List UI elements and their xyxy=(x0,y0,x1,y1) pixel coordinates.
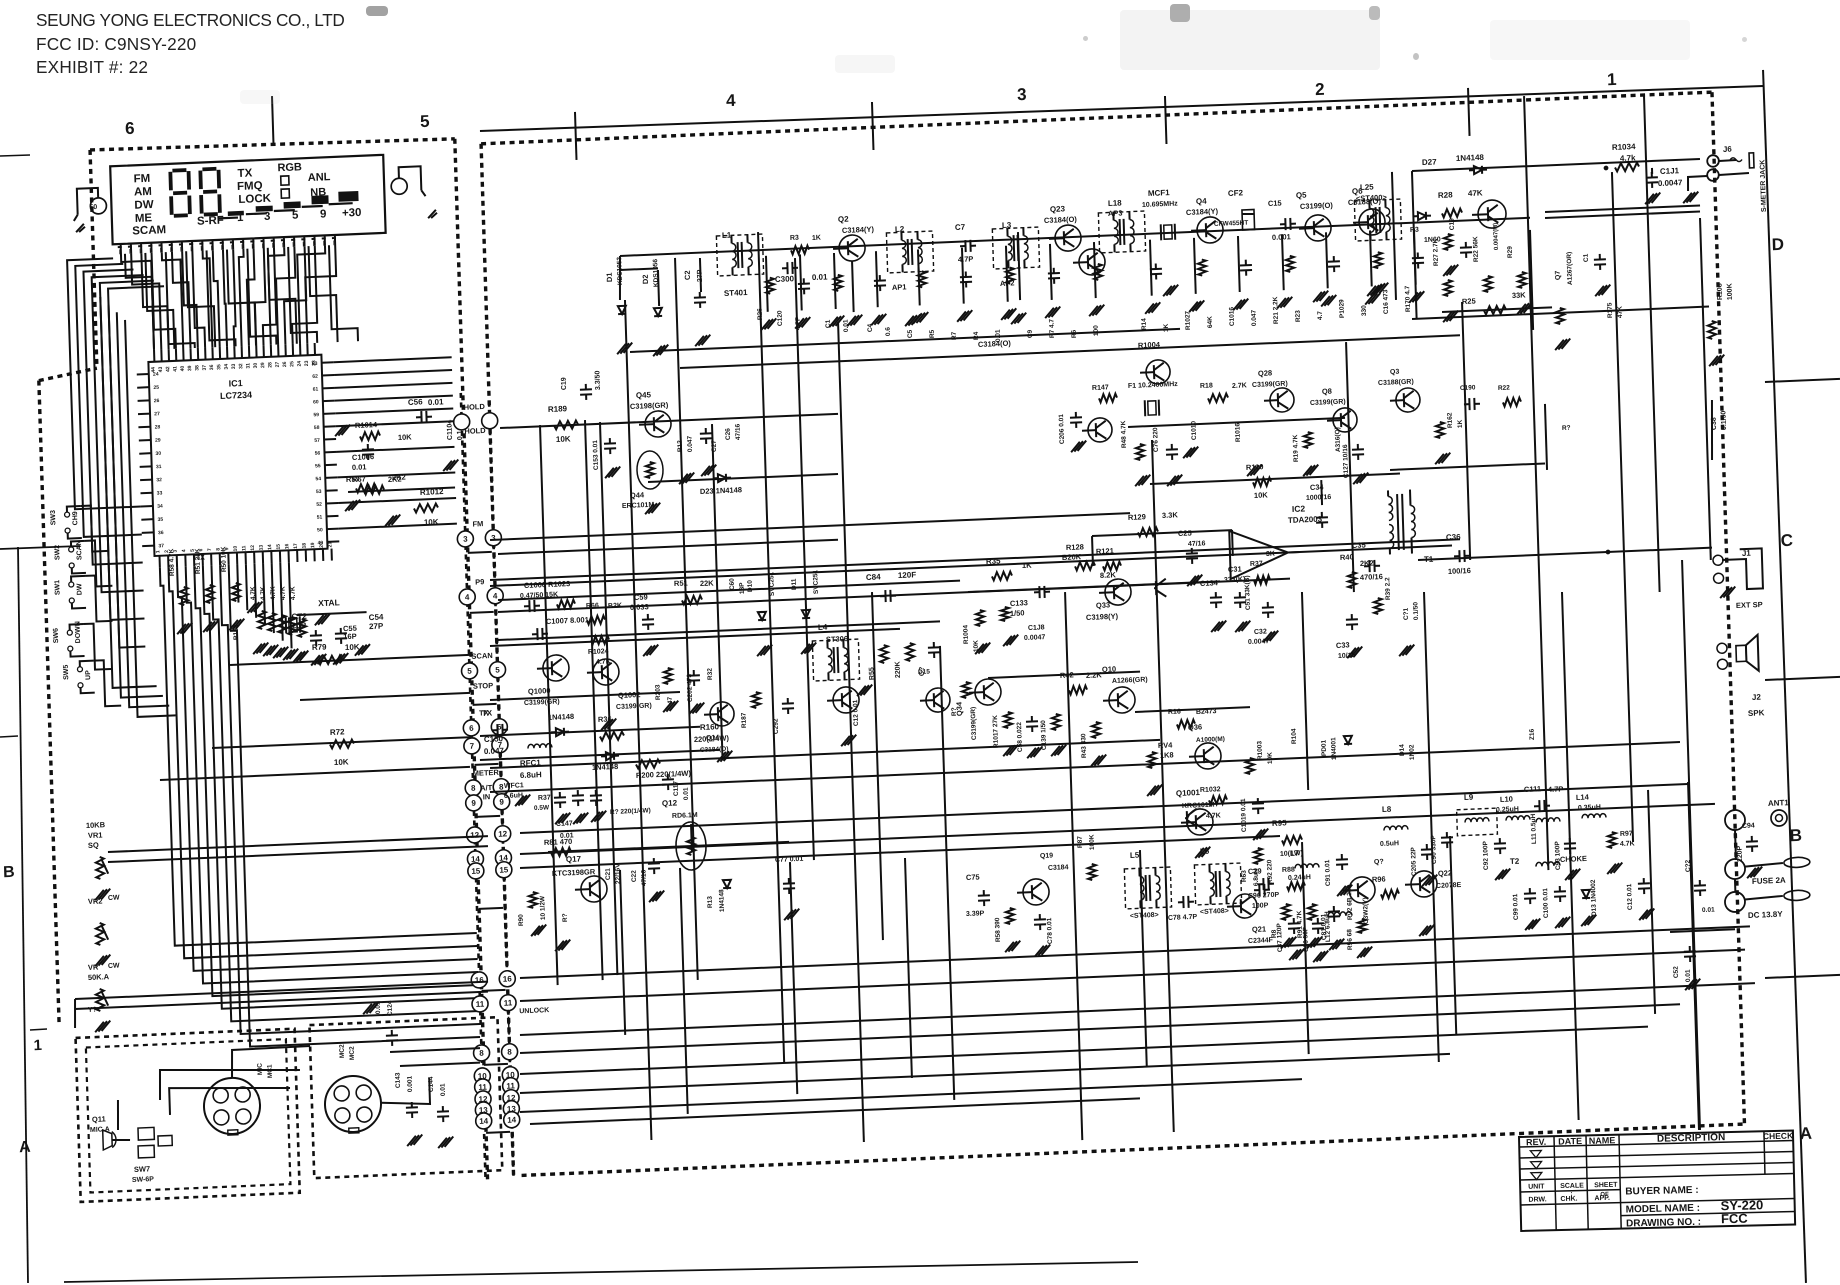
svg-text:58: 58 xyxy=(314,425,320,431)
svg-text:A: A xyxy=(19,1139,32,1156)
svg-text:R95: R95 xyxy=(1272,818,1287,828)
svg-text:120P: 120P xyxy=(1737,845,1745,862)
svg-text:D27: D27 xyxy=(1422,157,1437,167)
svg-text:VR1: VR1 xyxy=(88,830,103,840)
svg-text:18: 18 xyxy=(301,543,307,549)
svg-text:CH9: CH9 xyxy=(72,511,79,525)
svg-text:R63: R63 xyxy=(1241,870,1248,883)
svg-text:ME: ME xyxy=(135,212,153,225)
svg-text:C1010: C1010 xyxy=(1190,420,1198,440)
svg-text:R97: R97 xyxy=(1620,830,1633,838)
svg-text:27P: 27P xyxy=(369,621,384,631)
svg-text:Q10: Q10 xyxy=(1102,664,1116,674)
svg-text:C1J1: C1J1 xyxy=(1660,166,1680,176)
svg-text:J6: J6 xyxy=(1723,145,1733,154)
svg-text:0.01: 0.01 xyxy=(428,397,444,407)
svg-text:KRC101M: KRC101M xyxy=(1182,802,1215,810)
svg-text:40: 40 xyxy=(180,365,186,371)
svg-text:C33: C33 xyxy=(1336,640,1350,650)
svg-text:4.7: 4.7 xyxy=(1317,311,1324,321)
svg-text:4.7P: 4.7P xyxy=(958,254,974,264)
svg-text:24: 24 xyxy=(153,372,159,378)
svg-text:47/16: 47/16 xyxy=(641,869,649,886)
svg-text:UNIT: UNIT xyxy=(1528,1183,1545,1190)
svg-text:NAME: NAME xyxy=(1589,1135,1616,1146)
svg-text:0.24uH: 0.24uH xyxy=(1288,874,1311,882)
svg-text:R1014: R1014 xyxy=(355,420,378,430)
svg-text:35: 35 xyxy=(158,517,164,523)
svg-text:RD6.1M: RD6.1M xyxy=(672,812,698,820)
svg-text:C3188(GR): C3188(GR) xyxy=(1378,379,1414,387)
svg-text:C19: C19 xyxy=(561,377,568,390)
svg-text:A: A xyxy=(1799,1124,1812,1144)
svg-text:R81 470: R81 470 xyxy=(544,837,573,847)
svg-text:R37: R37 xyxy=(538,794,551,802)
svg-text:4.7P: 4.7P xyxy=(1548,784,1564,794)
svg-text:UNLOCK: UNLOCK xyxy=(519,1007,549,1015)
svg-text:C?1: C?1 xyxy=(1403,607,1410,620)
svg-text:30: 30 xyxy=(155,451,161,457)
svg-text:C3198(Y): C3198(Y) xyxy=(1086,612,1119,622)
svg-text:3.3K: 3.3K xyxy=(1162,510,1179,520)
svg-text:D2: D2 xyxy=(641,274,650,284)
svg-text:C120: C120 xyxy=(777,310,784,326)
svg-text:C76 220: C76 220 xyxy=(1152,427,1160,452)
svg-text:31: 31 xyxy=(156,464,162,470)
svg-text:220K: 220K xyxy=(895,661,903,678)
svg-text:0.01: 0.01 xyxy=(843,319,850,332)
svg-text:C32: C32 xyxy=(1254,628,1267,636)
svg-text:SQ: SQ xyxy=(88,841,99,850)
svg-text:15: 15 xyxy=(276,544,282,550)
svg-text:10: 10 xyxy=(233,545,239,551)
svg-text:17: 17 xyxy=(293,543,299,549)
svg-text:10K: 10K xyxy=(345,642,360,652)
svg-text:CF2: CF2 xyxy=(1228,188,1244,198)
svg-text:10.695MHz: 10.695MHz xyxy=(1142,200,1178,209)
svg-text:EXT SP: EXT SP xyxy=(1736,600,1763,610)
svg-text:R16: R16 xyxy=(1168,708,1181,716)
svg-text:C58 0.022: C58 0.022 xyxy=(1016,722,1024,753)
svg-text:R90: R90 xyxy=(518,914,525,927)
svg-text:ANT1: ANT1 xyxy=(1768,798,1790,808)
svg-text:FCC ID: C9NSY-220: FCC ID: C9NSY-220 xyxy=(36,34,196,54)
svg-text:C2078E: C2078E xyxy=(1436,882,1462,890)
svg-text:SCAN: SCAN xyxy=(76,540,84,560)
svg-text:R58 4.7K: R58 4.7K xyxy=(168,548,176,576)
svg-text:C19: C19 xyxy=(1449,218,1456,231)
svg-text:R28: R28 xyxy=(1438,190,1453,200)
svg-text:100K: 100K xyxy=(1727,283,1735,300)
svg-text:CFW455HT: CFW455HT xyxy=(1214,220,1249,228)
svg-text:C1007 8.001: C1007 8.001 xyxy=(546,615,589,626)
svg-text:A1267(OR): A1267(OR) xyxy=(1566,252,1574,286)
svg-text:5: 5 xyxy=(467,667,472,676)
svg-text:A1266(GR): A1266(GR) xyxy=(1112,676,1148,684)
svg-text:VR2: VR2 xyxy=(88,896,103,906)
svg-text:R4: R4 xyxy=(973,331,980,340)
svg-text:53: 53 xyxy=(316,489,322,495)
svg-text:FMQ: FMQ xyxy=(237,180,263,193)
svg-text:AP1: AP1 xyxy=(892,282,907,292)
svg-text:B2K: B2K xyxy=(608,602,622,610)
svg-text:R104: R104 xyxy=(1291,728,1298,744)
svg-text:R1017 27K: R1017 27K xyxy=(992,715,1000,748)
svg-text:6.6uH: 6.6uH xyxy=(504,792,523,800)
svg-text:12: 12 xyxy=(498,829,508,838)
svg-text:100P: 100P xyxy=(1252,902,1269,910)
svg-text:4.7K: 4.7K xyxy=(1620,840,1635,848)
svg-text:10K: 10K xyxy=(556,434,571,444)
svg-text:6: 6 xyxy=(125,119,135,138)
svg-text:D1: D1 xyxy=(605,272,614,282)
svg-text:C111: C111 xyxy=(1524,784,1541,794)
svg-text:R36: R36 xyxy=(598,714,612,724)
svg-text:31: 31 xyxy=(245,363,251,369)
svg-text:1K: 1K xyxy=(1022,561,1032,570)
svg-text:29: 29 xyxy=(260,362,266,368)
svg-text:Q11: Q11 xyxy=(92,1114,106,1124)
svg-text:METER: METER xyxy=(473,768,500,778)
svg-text:Q12: Q12 xyxy=(662,798,678,808)
svg-text:0.0047: 0.0047 xyxy=(1024,634,1046,642)
svg-text:43: 43 xyxy=(158,366,164,372)
svg-text:R?: R? xyxy=(1562,425,1571,432)
svg-text:4.7K: 4.7K xyxy=(260,586,267,600)
svg-text:C133: C133 xyxy=(1010,598,1028,608)
svg-text:36: 36 xyxy=(209,364,215,370)
svg-text:SW1: SW1 xyxy=(54,580,61,596)
svg-text:33: 33 xyxy=(231,363,237,369)
svg-text:0.0047: 0.0047 xyxy=(1658,178,1683,188)
svg-text:25: 25 xyxy=(153,385,159,391)
svg-text:1K: 1K xyxy=(812,235,821,242)
svg-text:R170 4.7: R170 4.7 xyxy=(1404,285,1412,312)
svg-text:C3184(Y): C3184(Y) xyxy=(842,225,875,235)
svg-text:R160: R160 xyxy=(700,722,720,732)
svg-text:C3198(GR): C3198(GR) xyxy=(630,400,669,411)
svg-text:C91 0.01: C91 0.01 xyxy=(1324,859,1332,886)
svg-text:C90 330P: C90 330P xyxy=(1430,834,1438,864)
svg-text:5: 5 xyxy=(420,112,430,131)
svg-text:0.5uH: 0.5uH xyxy=(1380,840,1399,848)
svg-text:52: 52 xyxy=(316,502,322,508)
svg-text:55: 55 xyxy=(315,463,321,469)
svg-text:2K2: 2K2 xyxy=(392,472,406,482)
svg-text:Q45: Q45 xyxy=(636,390,652,400)
svg-text:R48 4.7K: R48 4.7K xyxy=(1120,420,1128,448)
svg-text:10 1/2W: 10 1/2W xyxy=(539,895,547,920)
svg-text:MC1: MC1 xyxy=(267,1064,274,1078)
svg-text:J2: J2 xyxy=(1752,693,1762,702)
svg-text:Q22: Q22 xyxy=(1438,868,1452,878)
svg-text:SCAN: SCAN xyxy=(471,651,493,661)
svg-text:12: 12 xyxy=(470,831,480,840)
svg-text:C3199(GR): C3199(GR) xyxy=(616,703,652,711)
svg-text:FM: FM xyxy=(133,173,150,186)
svg-text:C3199(GR): C3199(GR) xyxy=(1252,381,1288,389)
svg-text:L5: L5 xyxy=(1130,851,1140,860)
svg-text:R189: R189 xyxy=(548,404,568,414)
svg-text:C99 0.01: C99 0.01 xyxy=(1512,893,1520,920)
svg-text:F1 10.2400MHz: F1 10.2400MHz xyxy=(1128,381,1178,390)
svg-text:FCC: FCC xyxy=(1721,1211,1749,1227)
svg-text:C92 100P: C92 100P xyxy=(1482,840,1490,870)
svg-text:R200 220(1/4W): R200 220(1/4W) xyxy=(636,769,692,780)
svg-text:HOLD: HOLD xyxy=(464,426,486,436)
svg-text:FUSE 2A: FUSE 2A xyxy=(1752,876,1786,886)
svg-text:4.7K: 4.7K xyxy=(280,586,287,600)
svg-text:3.39P: 3.39P xyxy=(966,910,985,918)
svg-text:14: 14 xyxy=(507,1115,517,1124)
svg-text:CW: CW xyxy=(108,962,120,970)
svg-text:8.2K: 8.2K xyxy=(1100,570,1117,580)
svg-text:C25: C25 xyxy=(1178,528,1192,538)
svg-text:L18: L18 xyxy=(1108,198,1123,208)
svg-text:R1004: R1004 xyxy=(1138,340,1161,350)
svg-text:63: 63 xyxy=(312,361,318,367)
svg-text:MC2: MC2 xyxy=(339,1044,346,1058)
svg-text:C205 22P: C205 22P xyxy=(1410,846,1418,876)
svg-text:IC1: IC1 xyxy=(229,378,243,389)
svg-text:Q23: Q23 xyxy=(1050,204,1066,214)
svg-text:RV4: RV4 xyxy=(1158,740,1174,750)
svg-text:L12 6.8uH: L12 6.8uH xyxy=(1324,911,1332,942)
svg-text:R50 10K: R50 10K xyxy=(220,546,228,572)
svg-text:UP: UP xyxy=(85,670,92,680)
svg-text:1: 1 xyxy=(1607,70,1617,89)
svg-text:CHECK: CHECK xyxy=(1763,1131,1794,1142)
svg-text:1: 1 xyxy=(155,550,161,553)
svg-text:S-RF: S-RF xyxy=(197,215,224,228)
svg-text:R67: R67 xyxy=(352,474,366,484)
svg-text:B: B xyxy=(1789,826,1802,846)
svg-text:Q36: Q36 xyxy=(1188,722,1202,732)
svg-text:R1032: R1032 xyxy=(1200,786,1221,794)
svg-text:28: 28 xyxy=(155,424,161,430)
svg-text:4.7K: 4.7K xyxy=(270,586,277,600)
svg-text:32: 32 xyxy=(156,477,162,483)
svg-text:59: 59 xyxy=(313,412,319,418)
svg-text:51: 51 xyxy=(317,514,323,520)
svg-text:7: 7 xyxy=(207,548,213,551)
svg-text:36: 36 xyxy=(158,530,164,536)
svg-text:16: 16 xyxy=(503,974,513,983)
svg-text:1N4148: 1N4148 xyxy=(592,762,619,772)
svg-text:22/16V: 22/16V xyxy=(614,863,622,885)
svg-text:26: 26 xyxy=(282,361,288,367)
svg-text:R29: R29 xyxy=(1507,246,1514,259)
svg-text:0.033: 0.033 xyxy=(630,602,649,612)
svg-text:Z16: Z16 xyxy=(1529,728,1536,740)
svg-text:AM: AM xyxy=(134,186,152,199)
svg-text:18P: 18P xyxy=(739,582,746,595)
svg-text:Q3: Q3 xyxy=(1390,369,1400,376)
svg-text:R88: R88 xyxy=(1282,866,1295,874)
svg-text:C1: C1 xyxy=(1583,253,1590,262)
svg-text:R162: R162 xyxy=(1446,412,1453,428)
svg-text:1/50: 1/50 xyxy=(1010,608,1025,618)
svg-text:D23 1N4148: D23 1N4148 xyxy=(700,485,742,496)
svg-text:R72: R72 xyxy=(330,727,345,737)
svg-text:LC7234: LC7234 xyxy=(220,390,252,401)
svg-text:6: 6 xyxy=(469,724,474,733)
svg-text:CHOKE: CHOKE xyxy=(1560,854,1587,864)
svg-text:C56: C56 xyxy=(408,397,423,407)
svg-text:R23: R23 xyxy=(1295,310,1302,323)
svg-text:B2473: B2473 xyxy=(1196,708,1217,716)
svg-text:1: 1 xyxy=(33,1037,42,1054)
svg-text:Q?: Q? xyxy=(1374,859,1384,866)
svg-text:L3: L3 xyxy=(1002,221,1012,230)
svg-text:L14: L14 xyxy=(1576,792,1590,802)
svg-text:MC2: MC2 xyxy=(349,1046,356,1060)
svg-text:SW5: SW5 xyxy=(63,664,70,680)
svg-text:1N4148: 1N4148 xyxy=(1456,153,1485,163)
svg-text:R3: R3 xyxy=(790,235,799,242)
svg-text:35: 35 xyxy=(216,364,222,370)
svg-text:100/16: 100/16 xyxy=(1448,566,1471,576)
svg-text:C78 0.01: C78 0.01 xyxy=(1046,917,1054,944)
svg-text:R21 2.2K: R21 2.2K xyxy=(1272,296,1280,324)
svg-text:R128: R128 xyxy=(1066,542,1084,552)
svg-text:L9: L9 xyxy=(1464,793,1474,802)
svg-text:470/16: 470/16 xyxy=(1360,572,1383,582)
svg-text:C75: C75 xyxy=(966,872,980,882)
svg-text:26: 26 xyxy=(154,398,160,404)
svg-text:C2: C2 xyxy=(683,270,692,280)
svg-text:61: 61 xyxy=(313,386,319,392)
svg-text:IC2: IC2 xyxy=(1292,503,1306,514)
svg-text:MIC.A: MIC.A xyxy=(90,1126,110,1134)
svg-text:Q7: Q7 xyxy=(1555,270,1562,280)
svg-text:APP.: APP. xyxy=(1594,1195,1610,1202)
svg-text:23: 23 xyxy=(304,360,310,366)
svg-text:37: 37 xyxy=(202,365,208,371)
svg-text:C3184(Y): C3184(Y) xyxy=(1186,207,1219,217)
svg-text:R147: R147 xyxy=(1092,384,1109,392)
svg-text:R22 56K: R22 56K xyxy=(1472,236,1480,262)
svg-text:CHK.: CHK. xyxy=(1560,1196,1577,1203)
svg-text:4: 4 xyxy=(726,91,737,110)
svg-text:SPK: SPK xyxy=(1748,708,1765,718)
svg-text:SHEET: SHEET xyxy=(1594,1182,1618,1190)
svg-text:<ST408>: <ST408> xyxy=(1130,912,1159,920)
svg-text:R40: R40 xyxy=(1340,552,1354,562)
svg-text:10K: 10K xyxy=(334,757,349,767)
svg-text:330: 330 xyxy=(1361,305,1368,317)
svg-text:+30: +30 xyxy=(342,207,362,220)
svg-text:C22: C22 xyxy=(631,870,638,883)
svg-text:R43 330: R43 330 xyxy=(1080,733,1088,758)
svg-text:C26: C26 xyxy=(725,428,732,441)
svg-text:KTC3198GR: KTC3198GR xyxy=(552,867,596,878)
svg-text:C3199(GR): C3199(GR) xyxy=(524,698,560,706)
svg-text:R96: R96 xyxy=(1372,874,1386,884)
svg-text:R108: R108 xyxy=(1716,283,1724,300)
svg-text:4.7K: 4.7K xyxy=(250,586,257,600)
svg-text:P1029: P1029 xyxy=(1338,299,1346,318)
svg-text:RFC1: RFC1 xyxy=(520,758,542,768)
svg-text:C: C xyxy=(1780,531,1793,551)
svg-text:C3184: C3184 xyxy=(1048,864,1069,872)
svg-text:R27 2.7K: R27 2.7K xyxy=(1432,238,1440,266)
svg-text:T2: T2 xyxy=(1510,857,1520,866)
svg-text:R1003: R1003 xyxy=(1256,740,1264,760)
svg-text:10K: 10K xyxy=(1254,490,1269,500)
svg-text:BUYER NAME :: BUYER NAME : xyxy=(1625,1185,1699,1198)
svg-text:39: 39 xyxy=(187,365,193,371)
svg-text:57: 57 xyxy=(314,438,320,444)
svg-text:1N02: 1N02 xyxy=(1408,744,1415,760)
svg-text:C117: C117 xyxy=(673,780,680,796)
svg-text:16P: 16P xyxy=(343,632,357,642)
svg-text:C100 0.01: C100 0.01 xyxy=(1542,888,1550,919)
svg-text:47/16: 47/16 xyxy=(1188,540,1206,548)
svg-text:C77 0.01: C77 0.01 xyxy=(775,856,804,864)
svg-text:220(1/4W): 220(1/4W) xyxy=(694,734,730,744)
svg-text:Q21: Q21 xyxy=(1252,924,1266,934)
svg-text:11: 11 xyxy=(504,998,513,1007)
svg-text:4.7k: 4.7k xyxy=(1620,153,1636,163)
svg-text:10K: 10K xyxy=(398,432,413,442)
svg-text:C3184(O): C3184(O) xyxy=(978,339,1012,349)
svg-text:1: 1 xyxy=(237,212,244,224)
svg-text:C143: C143 xyxy=(394,1072,401,1088)
svg-text:SW6: SW6 xyxy=(53,628,60,644)
svg-text:16: 16 xyxy=(475,976,485,985)
svg-text:D13 1N4002: D13 1N4002 xyxy=(1590,879,1598,916)
svg-text:R110: R110 xyxy=(1246,462,1264,472)
svg-text:A316(O): A316(O) xyxy=(1334,427,1342,452)
svg-text:1N4148: 1N4148 xyxy=(718,889,726,912)
svg-text:8: 8 xyxy=(471,784,476,793)
svg-text:11: 11 xyxy=(241,545,247,551)
svg-text:10K: 10K xyxy=(424,517,439,527)
svg-text:7: 7 xyxy=(470,742,475,751)
svg-text:Q17: Q17 xyxy=(566,854,582,864)
svg-text:R187: R187 xyxy=(741,712,748,728)
svg-text:P9: P9 xyxy=(475,577,484,586)
svg-text:3.3/50: 3.3/50 xyxy=(594,370,602,390)
svg-text:R?: R? xyxy=(951,707,958,716)
svg-text:0.5W: 0.5W xyxy=(534,804,550,812)
svg-text:60: 60 xyxy=(313,399,319,405)
svg-text:C1J8: C1J8 xyxy=(1028,624,1045,632)
svg-text:ST306: ST306 xyxy=(826,634,848,644)
svg-text:Q5: Q5 xyxy=(1296,191,1307,200)
svg-text:R1034: R1034 xyxy=(1612,142,1636,152)
svg-text:3: 3 xyxy=(1017,85,1027,104)
svg-text:ST401: ST401 xyxy=(724,288,748,298)
svg-text:2.2K: 2.2K xyxy=(1086,670,1103,680)
svg-text:SW3: SW3 xyxy=(50,510,57,526)
svg-text:EXHIBIT #: 22: EXHIBIT #: 22 xyxy=(36,57,148,77)
svg-text:CW: CW xyxy=(108,894,120,902)
svg-text:10KB: 10KB xyxy=(86,820,106,830)
svg-text:D15: D15 xyxy=(918,669,931,677)
svg-text:Q2: Q2 xyxy=(838,215,849,224)
svg-text:C94: C94 xyxy=(1742,822,1755,830)
svg-text:FM: FM xyxy=(472,519,483,528)
svg-text:3: 3 xyxy=(264,211,271,223)
svg-text:0.1/50: 0.1/50 xyxy=(1720,410,1728,430)
svg-text:38: 38 xyxy=(194,365,200,371)
svg-text:12: 12 xyxy=(250,545,256,551)
svg-text:R1004: R1004 xyxy=(962,624,970,644)
svg-text:R87: R87 xyxy=(1077,836,1084,849)
svg-text:0.047: 0.047 xyxy=(687,435,695,452)
